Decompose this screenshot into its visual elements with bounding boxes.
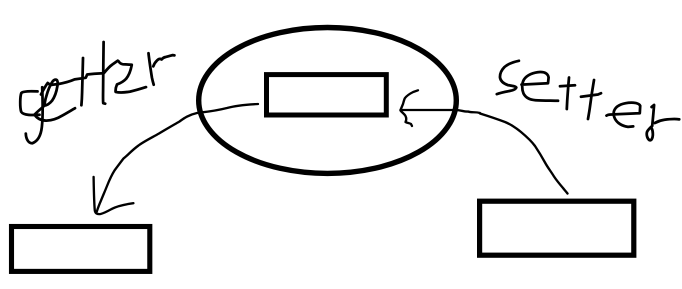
setter arrowhead upper barb [401, 90, 419, 110]
setter label: first t stem [567, 78, 569, 110]
bottom-right rectangle [480, 201, 634, 255]
setter arrow curve (from bottom-right rect up to arrow) [480, 114, 568, 194]
getter arrowhead (left barb and bottom hook) [94, 177, 134, 214]
setter arrowhead lower barb [401, 111, 413, 127]
setter label: second letter e [607, 103, 641, 127]
field rectangle inside ellipse [267, 75, 387, 115]
setter label: first t crossbar [560, 85, 575, 86]
getter label: second letter e [116, 61, 146, 92]
setter label: second t crossbar [581, 93, 601, 97]
setter label: letter r arm [655, 119, 679, 123]
getter label: tt crossbar [41, 61, 118, 95]
ellipse (object boundary) [199, 28, 457, 174]
getter label: letter g stem and tail [26, 87, 43, 143]
setter label: letter r stem [647, 105, 654, 140]
getter label: letter g bowl [20, 91, 39, 115]
getter label: second t stem [103, 42, 105, 104]
getter label: first t stem [81, 58, 83, 105]
setter arrow shaft (horizontal, pointing at inner rect) [401, 110, 481, 113]
setter label: letter s [497, 61, 519, 94]
getter label: letter e bowl [35, 80, 75, 121]
setter label: first letter e [522, 72, 559, 101]
getter label: letter r arm [153, 55, 174, 66]
setter label: second t stem [588, 80, 594, 119]
getter arrow curve (from inner rect to bottom-left rect) [97, 104, 258, 212]
getter label: letter r stem [149, 53, 154, 84]
bottom-left rectangle [12, 227, 150, 272]
